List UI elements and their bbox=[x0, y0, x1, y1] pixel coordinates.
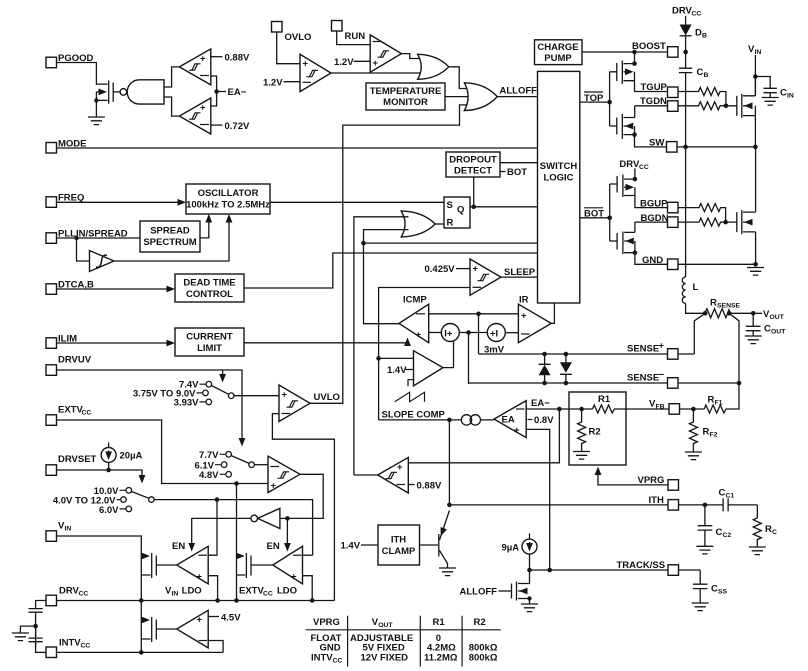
svg-text:1.2V: 1.2V bbox=[334, 57, 354, 68]
svg-text:BGUP: BGUP bbox=[640, 198, 668, 209]
wire L to RSENSE bbox=[686, 303, 707, 313]
svg-text:EA−: EA− bbox=[531, 398, 550, 409]
svg-text:SS: SS bbox=[718, 589, 728, 596]
op-amp EA (points left) bbox=[494, 401, 526, 438]
wire VIN rail bbox=[754, 55, 756, 96]
wire EXTVCC LDO plus to DRVCC bbox=[303, 576, 313, 601]
junction dot cap ground bbox=[33, 624, 38, 629]
svg-text:SWITCH: SWITCH bbox=[540, 161, 578, 172]
pin RUN bbox=[332, 21, 343, 32]
pin OVLO bbox=[272, 22, 283, 33]
pin DRVUV bbox=[46, 365, 57, 376]
capacitor CIN bbox=[755, 77, 777, 98]
OR gate U6 reset bbox=[401, 211, 435, 237]
svg-text:EXTV: EXTV bbox=[58, 405, 83, 416]
ground M2 source bbox=[747, 268, 764, 276]
diode clamp D1 bbox=[542, 352, 547, 357]
svg-text:100kHz TO 2.5MHz: 100kHz TO 2.5MHz bbox=[186, 200, 270, 211]
wire TRACK/SS line bbox=[530, 569, 701, 571]
svg-text:0.8V: 0.8V bbox=[534, 415, 554, 426]
svg-text:+: + bbox=[373, 58, 379, 69]
svg-text:TEMPERATURE: TEMPERATURE bbox=[370, 86, 442, 97]
wire INTVCC line bbox=[57, 651, 224, 653]
wire ALLOFF to switch logic bbox=[497, 96, 537, 98]
capacitor CB bbox=[679, 68, 692, 72]
wire spread spectrum to oscillator bbox=[200, 221, 209, 238]
op-amp INTVCC 4.5V (points left) bbox=[177, 610, 209, 648]
svg-text:C1: C1 bbox=[726, 492, 735, 499]
transistor M2 bottom FET bbox=[736, 212, 738, 232]
comparator PGOOD 0.88V (points left) bbox=[378, 457, 409, 493]
wire Q output to switch logic bbox=[470, 206, 537, 208]
svg-text:ALLOFF: ALLOFF bbox=[500, 86, 538, 97]
wire EXTVCC bbox=[57, 420, 269, 484]
svg-text:DROPOUT: DROPOUT bbox=[449, 155, 497, 166]
wire MODE to switch logic bbox=[57, 147, 538, 149]
wire VIN LDO plus to DRVCC bbox=[208, 576, 217, 601]
svg-text:+: + bbox=[397, 462, 403, 473]
svg-text:+: + bbox=[521, 311, 527, 322]
wire comp inputs to EA- node bbox=[211, 76, 217, 106]
resistor TGDN gate bbox=[678, 102, 737, 110]
pin ILIM bbox=[46, 338, 57, 349]
wire UVLO minus sense DRVCC bbox=[272, 414, 334, 601]
op-amp EXTVCC LDO (points left) bbox=[273, 546, 303, 584]
svg-text:CC: CC bbox=[82, 410, 92, 417]
wire BOT to driver gates bbox=[580, 184, 610, 241]
svg-text:LDO: LDO bbox=[179, 586, 202, 597]
wire DTCA,B to dead time control bbox=[57, 288, 169, 290]
wire 1.4V amp input from ITH node bbox=[379, 357, 414, 359]
label 4.5V bbox=[208, 616, 219, 618]
transistor bot driver pull-up bbox=[610, 176, 617, 193]
svg-text:EXTV: EXTV bbox=[239, 586, 264, 597]
svg-text:12V FIXED: 12V FIXED bbox=[361, 653, 409, 664]
svg-text:I+: I+ bbox=[444, 328, 453, 339]
ground CIN bbox=[762, 98, 779, 106]
pin GND bbox=[668, 259, 679, 270]
wire GND line bbox=[678, 263, 756, 265]
wire PGOOD to MOSFET drain bbox=[57, 63, 108, 85]
wire inverter out to VIN LDO EN bbox=[192, 518, 251, 545]
ground RC bbox=[749, 547, 766, 555]
wire 4.5V amp minus to INTVCC bbox=[208, 641, 223, 653]
wire sense+ drop bbox=[478, 314, 480, 354]
svg-text:TRACK/SS: TRACK/SS bbox=[617, 560, 666, 571]
svg-text:R1: R1 bbox=[598, 394, 611, 405]
svg-text:RUN: RUN bbox=[345, 31, 366, 42]
op-amp VIN LDO (points left) bbox=[177, 546, 209, 584]
wire OR1 out to OR2 bbox=[449, 67, 471, 89]
label 0.88V ref bbox=[408, 484, 414, 486]
box CHARGE PUMP bbox=[535, 40, 583, 65]
comparator SLEEP (0.425V) bbox=[470, 259, 501, 295]
svg-text:6.0V: 6.0V bbox=[99, 505, 119, 516]
wire EXTVCC LDO EN bbox=[286, 518, 288, 545]
svg-text:C2: C2 bbox=[723, 532, 732, 539]
svg-text:ICMP: ICMP bbox=[403, 295, 427, 306]
wire TOP to driver gates bbox=[580, 72, 610, 126]
pin TGUP bbox=[668, 87, 679, 98]
svg-text:S: S bbox=[447, 200, 453, 211]
svg-text:OVLO: OVLO bbox=[285, 32, 312, 43]
ground Q4 bbox=[529, 599, 531, 605]
label BOT at dropout bbox=[500, 171, 506, 173]
junction dot Q1 source-body bbox=[94, 98, 98, 102]
wire UVLO output up to ALLOFF or bbox=[310, 402, 343, 404]
inverter EN (points left) bbox=[258, 508, 280, 528]
svg-text:INTV: INTV bbox=[311, 653, 333, 664]
wire 0.88V comp output to OR3 line bbox=[354, 474, 378, 476]
wire DRVSET bbox=[57, 470, 143, 476]
capacitor CC2 bbox=[698, 505, 713, 546]
capacitor COUT bbox=[746, 313, 761, 336]
svg-text:R2: R2 bbox=[474, 617, 486, 628]
svg-text:SPECTRUM: SPECTRUM bbox=[143, 237, 196, 248]
svg-text:LOGIC: LOGIC bbox=[543, 173, 573, 184]
wire OR3 input B from ICMP bbox=[364, 230, 409, 244]
wire kelvin sense+ bbox=[694, 313, 705, 354]
svg-text:OUT: OUT bbox=[770, 314, 785, 321]
pin VIN bbox=[46, 531, 57, 542]
ground CC2 bbox=[696, 546, 713, 554]
transistor top driver pull-up bbox=[610, 63, 617, 81]
OR gate U3 bbox=[418, 54, 449, 79]
svg-text:R1: R1 bbox=[433, 617, 446, 628]
resistor TGUP gate bbox=[678, 88, 726, 106]
wire slope amp out to summer bbox=[443, 341, 454, 368]
svg-text:OUT: OUT bbox=[378, 622, 393, 629]
svg-text:SENSE: SENSE bbox=[627, 344, 659, 355]
wire VFB to RF1 bbox=[680, 408, 705, 410]
svg-text:MONITOR: MONITOR bbox=[383, 97, 428, 108]
svg-text:BOT: BOT bbox=[507, 167, 527, 178]
ground Q3 bbox=[439, 568, 456, 576]
svg-text:SLOPE COMP: SLOPE COMP bbox=[382, 410, 446, 421]
svg-text:EA: EA bbox=[502, 415, 515, 426]
pin SENSE+ bbox=[668, 349, 679, 360]
wire OVLO comp output to OR1 bbox=[331, 72, 425, 74]
wire EA- to R1 bbox=[526, 408, 592, 410]
wire dropout detect to switch logic bbox=[500, 162, 537, 164]
svg-text:LIMIT: LIMIT bbox=[197, 343, 222, 354]
inductor L bbox=[685, 147, 687, 277]
svg-text:+I: +I bbox=[490, 328, 498, 339]
svg-text:C: C bbox=[716, 527, 723, 538]
svg-text:CC: CC bbox=[333, 658, 343, 665]
wire VIN LDO minus to setpoint bbox=[208, 500, 217, 556]
ground CSS bbox=[692, 603, 709, 611]
svg-text:ITH: ITH bbox=[649, 495, 664, 506]
svg-text:C: C bbox=[772, 529, 777, 536]
svg-text:DRV: DRV bbox=[59, 586, 80, 597]
svg-text:D: D bbox=[695, 27, 702, 38]
pin BOOST bbox=[668, 47, 679, 58]
svg-text:R2: R2 bbox=[589, 427, 601, 438]
wire VPRG arrow into divider box bbox=[598, 474, 668, 485]
ground RF2 bbox=[685, 452, 702, 460]
wire current limit to ICMP bbox=[244, 340, 408, 343]
svg-text:+: + bbox=[197, 615, 203, 626]
svg-text:1.4V: 1.4V bbox=[387, 365, 407, 376]
svg-text:ALLOFF: ALLOFF bbox=[460, 587, 498, 598]
pin FREQ bbox=[46, 197, 57, 208]
comparator EXTVCC detect bbox=[268, 456, 300, 492]
svg-text:+: + bbox=[282, 390, 288, 401]
svg-text:DETECT: DETECT bbox=[454, 166, 492, 177]
wire IR output to switch logic bbox=[551, 303, 554, 323]
pin DRVSET bbox=[46, 465, 57, 476]
wire dead time control to switch logic bbox=[244, 253, 537, 288]
svg-text:C: C bbox=[780, 88, 787, 99]
wire PLLIN to spread spectrum bbox=[57, 237, 141, 239]
box SWITCH LOGIC bbox=[538, 71, 580, 303]
svg-text:LDO: LDO bbox=[277, 586, 297, 597]
svg-text:VPRG: VPRG bbox=[638, 475, 665, 486]
svg-text:F1: F1 bbox=[715, 400, 723, 407]
svg-text:0.88V: 0.88V bbox=[417, 481, 442, 492]
transistor INTVCC pass FET bbox=[140, 601, 142, 653]
switch S2 bbox=[126, 488, 132, 494]
svg-text:DEAD TIME: DEAD TIME bbox=[183, 278, 235, 289]
pin DTCA,B bbox=[46, 284, 57, 295]
wire 0.88V ref bbox=[211, 56, 223, 58]
svg-text:R: R bbox=[710, 298, 717, 309]
resistor BGDN gate bbox=[678, 218, 737, 226]
transistor Q1 PGOOD pulldown bbox=[96, 92, 107, 117]
box ITH CLAMP bbox=[378, 525, 420, 565]
node compensation bbox=[703, 503, 708, 508]
svg-text:BGDN: BGDN bbox=[641, 213, 669, 224]
svg-text:SPREAD: SPREAD bbox=[150, 226, 190, 237]
svg-text:+: + bbox=[514, 425, 520, 436]
wire summer to node bbox=[459, 332, 487, 334]
wire kelvin sense- bbox=[729, 313, 739, 383]
box DEAD TIME CONTROL bbox=[175, 274, 244, 302]
svg-text:CC: CC bbox=[639, 164, 649, 171]
svg-text:1.4V: 1.4V bbox=[341, 541, 361, 552]
wire CB to SW rail bbox=[685, 73, 687, 147]
junction dot EA out to ITH bbox=[447, 418, 452, 423]
pin BGUP bbox=[668, 202, 679, 213]
buffer circles bbox=[461, 415, 471, 425]
junction dot sense+ tap bbox=[476, 312, 481, 317]
pin PLLIN/SPREAD bbox=[46, 233, 57, 244]
wire OR3 out to R bbox=[435, 223, 444, 225]
svg-text:EA−: EA− bbox=[228, 87, 247, 98]
svg-text:Q: Q bbox=[457, 205, 464, 216]
wire ICMP plus to summer bbox=[429, 332, 442, 334]
wire switch to UVLO bbox=[234, 395, 279, 397]
wire EA plus to TRACK/SS bbox=[526, 429, 550, 570]
svg-text:+: + bbox=[197, 572, 203, 583]
wire TGDN line bbox=[635, 105, 668, 107]
wire EA output through buffer to ITH bbox=[379, 419, 494, 421]
comparator RUN (1.2V) bbox=[370, 35, 401, 72]
svg-text:−: − bbox=[659, 370, 665, 381]
current source 20uA bbox=[108, 443, 110, 449]
pin TRACK/SS bbox=[668, 565, 679, 576]
pin SENSE- bbox=[668, 378, 679, 389]
svg-text:CLAMP: CLAMP bbox=[382, 546, 416, 557]
buffer phase detector bbox=[77, 238, 90, 261]
svg-text:OUT: OUT bbox=[771, 329, 786, 336]
svg-text:IN: IN bbox=[65, 526, 72, 533]
pin SW bbox=[667, 142, 678, 153]
box R1 R2 divider bbox=[569, 392, 626, 465]
svg-text:CHARGE: CHARGE bbox=[537, 42, 578, 53]
comparator OVLO (1.2V) bbox=[300, 54, 331, 91]
current source 9uA bbox=[522, 539, 537, 554]
wire SW line bbox=[677, 146, 755, 148]
pin BGDN bbox=[668, 217, 679, 228]
svg-text:CONTROL: CONTROL bbox=[186, 289, 233, 300]
transistor M1 top FET bbox=[736, 96, 738, 116]
pin MODE bbox=[46, 143, 57, 154]
wire DRVCC line bbox=[57, 600, 335, 602]
pin EXTVCC bbox=[46, 415, 57, 426]
svg-text:C: C bbox=[697, 67, 704, 78]
svg-text:R: R bbox=[765, 524, 772, 535]
junction dot ITH-1.4V tap bbox=[376, 356, 381, 361]
wire switch to EXTVCC comp bbox=[254, 464, 268, 466]
pin TGDN bbox=[668, 101, 679, 112]
svg-text:DRVSET: DRVSET bbox=[58, 454, 97, 465]
svg-text:DRV: DRV bbox=[619, 159, 640, 170]
svg-text:L: L bbox=[693, 282, 699, 293]
svg-text:11.2MΩ: 11.2MΩ bbox=[424, 653, 458, 664]
wire buffer out to oscillator bbox=[114, 221, 229, 261]
pin INTVCC bbox=[46, 647, 57, 658]
wire sleep output to switch logic bbox=[501, 276, 537, 278]
svg-text:3.93V: 3.93V bbox=[174, 397, 199, 408]
svg-text:FB: FB bbox=[656, 404, 665, 411]
svg-text:R: R bbox=[708, 395, 715, 406]
svg-text:BOOST: BOOST bbox=[632, 41, 666, 52]
svg-text:DRVUV: DRVUV bbox=[58, 355, 92, 366]
transistor EXTVCC LDO pass FET bbox=[236, 484, 238, 601]
OR gate U4 ALLOFF bbox=[464, 83, 497, 111]
svg-text:VPRG: VPRG bbox=[313, 617, 340, 628]
wire dropout detect bottom to Q line bbox=[473, 177, 475, 207]
wire OR3 input A from 0.88V comp bbox=[354, 217, 409, 475]
diode DB bbox=[685, 16, 687, 25]
ground bypass caps bbox=[20, 626, 35, 633]
box SPREAD SPECTRUM bbox=[140, 221, 200, 252]
capacitor CC1 bbox=[705, 498, 757, 511]
svg-text:ITH: ITH bbox=[391, 535, 406, 546]
svg-text:SENSE: SENSE bbox=[627, 373, 659, 384]
svg-text:9µA: 9µA bbox=[502, 543, 520, 554]
summer circle I+ bbox=[441, 324, 459, 342]
wire +I to IR minus bbox=[505, 332, 518, 334]
svg-text:+: + bbox=[271, 481, 277, 492]
svg-text:0.425V: 0.425V bbox=[425, 264, 456, 275]
wire DRVCC setpoint line bbox=[154, 500, 312, 556]
svg-text:CC: CC bbox=[79, 591, 89, 598]
wire NAND input B bbox=[164, 97, 179, 116]
wire sense- drop bbox=[468, 333, 470, 385]
NAND gate U2 (output on left) bbox=[120, 89, 127, 96]
wire UVLO feedback into OR2 bbox=[343, 105, 471, 404]
wire temp monitor to OR2 bbox=[445, 96, 473, 98]
svg-text:4.5V: 4.5V bbox=[221, 613, 241, 624]
svg-text:IN: IN bbox=[172, 591, 179, 598]
box OSCILLATOR bbox=[186, 184, 270, 214]
svg-text:GND: GND bbox=[642, 255, 663, 266]
svg-text:CC: CC bbox=[692, 11, 702, 18]
wire SENSE- line bbox=[469, 382, 740, 384]
wire SENSE+ line bbox=[479, 353, 695, 355]
svg-text:0.88V: 0.88V bbox=[225, 53, 250, 64]
svg-text:CC: CC bbox=[81, 643, 91, 650]
junction dot summer node bbox=[466, 330, 471, 335]
svg-text:20µA: 20µA bbox=[120, 451, 143, 462]
svg-text:B: B bbox=[702, 32, 707, 39]
junction dot ICMP-OR3 bbox=[361, 241, 366, 246]
ground R2 bbox=[573, 452, 590, 460]
pin DRVCC bbox=[46, 595, 57, 606]
wire ICMP out to OR3 and switch logic bbox=[364, 243, 538, 324]
svg-text:OSCILLATOR: OSCILLATOR bbox=[198, 188, 259, 199]
wire ILIM to current limit bbox=[57, 342, 169, 344]
svg-text:EN: EN bbox=[267, 541, 280, 552]
capacitor CSS bbox=[693, 570, 708, 603]
svg-text:+: + bbox=[659, 341, 665, 352]
svg-text:PUMP: PUMP bbox=[544, 53, 572, 64]
wire ITH line bbox=[449, 504, 705, 506]
wire RUN comp output to OR1 bbox=[401, 54, 424, 59]
svg-text:R: R bbox=[447, 218, 454, 229]
wire VIN to pass FET bbox=[57, 536, 142, 601]
svg-text:C: C bbox=[764, 324, 771, 335]
ground COUT bbox=[745, 336, 762, 344]
svg-text:INTV: INTV bbox=[59, 638, 81, 649]
svg-text:SLEEP: SLEEP bbox=[504, 267, 536, 278]
svg-text:IN: IN bbox=[755, 49, 762, 56]
ground PGOOD bbox=[88, 117, 105, 125]
svg-text:R: R bbox=[703, 427, 710, 438]
wire charge pump to BOOST bbox=[582, 51, 668, 53]
svg-text:TGDN: TGDN bbox=[640, 96, 667, 107]
svg-text:+: + bbox=[200, 103, 206, 114]
svg-text:+: + bbox=[291, 572, 297, 583]
wire DRVUV arrow to 7.4V switch bbox=[222, 370, 224, 375]
svg-text:+: + bbox=[200, 54, 206, 65]
comparator UVLO bbox=[279, 385, 310, 422]
svg-text:800kΩ: 800kΩ bbox=[469, 653, 498, 664]
resistor BGUP gate bbox=[678, 204, 726, 223]
switch S1 bbox=[206, 381, 212, 387]
svg-text:B: B bbox=[704, 72, 709, 79]
wire BGDN line bbox=[635, 221, 668, 223]
svg-text:+: + bbox=[473, 264, 479, 275]
transistor top driver pull-down bbox=[610, 118, 617, 135]
summer circle +I bbox=[487, 324, 505, 342]
sawtooth symbol bbox=[395, 392, 425, 401]
wire Q1 gate to NAND bubble bbox=[113, 91, 120, 93]
svg-text:CC: CC bbox=[263, 591, 273, 598]
comparator PGOOD-OV (0.88V) bbox=[179, 49, 211, 85]
svg-text:IR: IR bbox=[519, 295, 529, 306]
pin PGOOD bbox=[46, 57, 57, 67]
diode clamp D2 bbox=[564, 352, 569, 357]
wire EXTVCC LDO minus to setpoint bbox=[303, 554, 313, 556]
capacitor DRVCC bypass bbox=[29, 601, 47, 647]
node EA- bbox=[214, 89, 219, 94]
junction dot Q-dropout bbox=[471, 205, 476, 210]
svg-text:0.72V: 0.72V bbox=[225, 121, 250, 132]
